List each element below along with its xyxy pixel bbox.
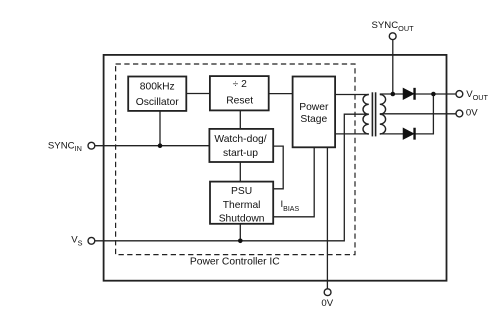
- svg-text:Thermal: Thermal: [223, 200, 261, 211]
- svg-text:800kHz: 800kHz: [140, 82, 175, 93]
- svg-text:0V: 0V: [466, 108, 478, 119]
- svg-text:PSU: PSU: [231, 186, 252, 197]
- svg-text:Power: Power: [299, 102, 329, 113]
- svg-text:Reset: Reset: [226, 95, 253, 106]
- svg-text:Watch-dog/: Watch-dog/: [214, 134, 266, 145]
- svg-text:Shutdown: Shutdown: [219, 213, 265, 224]
- svg-text:0V: 0V: [321, 298, 333, 309]
- svg-text:start-up: start-up: [223, 148, 258, 159]
- svg-text:Oscillator: Oscillator: [136, 97, 179, 108]
- svg-text:Stage: Stage: [300, 114, 327, 125]
- svg-text:Power Controller IC: Power Controller IC: [190, 257, 280, 268]
- svg-text:÷ 2: ÷ 2: [233, 79, 248, 90]
